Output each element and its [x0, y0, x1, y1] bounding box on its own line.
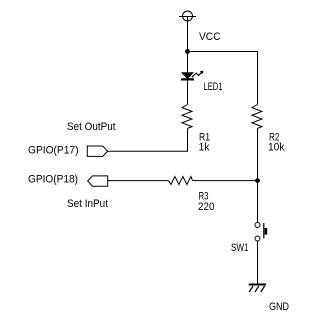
label Set OutPut — [67, 121, 116, 133]
resistor R3 zigzag — [169, 177, 193, 185]
label Set InPut — [67, 198, 108, 210]
svg-text:SW1: SW1 — [231, 242, 249, 254]
value label 1k — [199, 142, 210, 154]
label R3 — [199, 191, 209, 203]
switch SW1 pushbutton — [255, 223, 267, 242]
wire R3 to junction node — [193, 180, 258, 182]
svg-text:Set OutPut: Set OutPut — [67, 121, 116, 133]
label R2 — [269, 132, 280, 144]
ground symbol — [249, 285, 266, 293]
label LED1 — [204, 81, 223, 93]
svg-text:Set InPut: Set InPut — [67, 198, 108, 210]
label GPIO(P17) — [28, 145, 79, 157]
resistor R2 zigzag — [252, 105, 262, 129]
label R1 — [199, 132, 210, 144]
svg-text:10k: 10k — [268, 142, 285, 154]
net label VCC — [199, 31, 221, 43]
wire VCC node to R2 top — [188, 52, 258, 105]
power symbol VCC flag — [179, 11, 196, 21]
svg-text:GND: GND — [269, 301, 289, 313]
label GPIO(P18) — [28, 174, 78, 186]
junction dot at VCC node — [185, 49, 190, 54]
svg-text:1k: 1k — [199, 142, 210, 154]
wire GPIO(P18) to R3 — [108, 180, 169, 182]
junction dot at R2/SW node — [255, 178, 260, 183]
connector GPIO(P17) — [87, 146, 107, 156]
wire VCC to junction and LED — [187, 17, 189, 73]
LED LED1 symbol — [181, 71, 203, 81]
svg-text:GPIO(P18): GPIO(P18) — [28, 174, 78, 186]
wire R1 bottom to GPIO(P17) connector — [108, 128, 188, 151]
value label 220 — [198, 201, 215, 213]
wire SW1 to ground — [257, 241, 259, 285]
svg-text:VCC: VCC — [199, 31, 221, 43]
resistor R1 zigzag — [182, 105, 192, 129]
value label 10k — [268, 142, 285, 154]
connector GPIO(P18) — [88, 176, 108, 186]
label SW1 — [231, 242, 249, 254]
wire R2 bottom to junction — [257, 128, 259, 180]
svg-text:LED1: LED1 — [204, 81, 223, 93]
wire LED to R1 — [187, 81, 189, 105]
wire junction to switch SW1 — [257, 181, 259, 223]
svg-text:220: 220 — [198, 201, 215, 213]
net label GND — [269, 301, 289, 313]
svg-text:GPIO(P17): GPIO(P17) — [28, 145, 79, 157]
